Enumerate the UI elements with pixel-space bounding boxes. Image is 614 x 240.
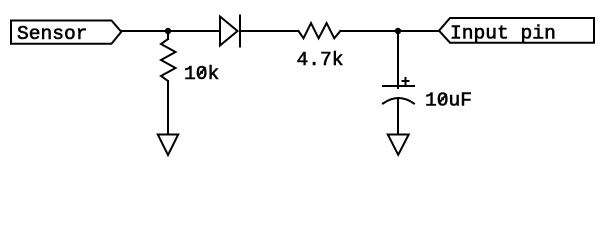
wire: junction down to C1 xyxy=(397,31,399,88)
wire: R1 bottom to ground xyxy=(167,81,169,135)
wire: R2 to Input pin flag xyxy=(340,30,439,32)
wire: C1 bottom to ground xyxy=(397,100,399,135)
diode D1 xyxy=(220,16,240,47)
svg-text:10k: 10k xyxy=(184,63,219,85)
resistor R2 4.7k (horizontal) xyxy=(299,23,341,38)
net flag Input pin xyxy=(439,18,594,43)
label 10uF xyxy=(425,90,472,112)
node junction at R1 top xyxy=(165,28,171,34)
resistor R1 10k (vertical) xyxy=(161,39,176,81)
wire: Sensor flag to diode anode xyxy=(121,30,220,32)
ground symbol (left) xyxy=(158,135,178,156)
node junction at C1 top xyxy=(395,28,401,34)
capacitor C1 10uF (polarized) xyxy=(383,86,414,104)
svg-text:Sensor: Sensor xyxy=(17,23,88,45)
wire: junction down to R1 xyxy=(167,31,169,39)
svg-text:10uF: 10uF xyxy=(425,90,472,112)
svg-text:Input pin: Input pin xyxy=(450,23,556,45)
plus polarity mark xyxy=(403,78,409,85)
label 10k xyxy=(184,63,219,85)
ground symbol (right) xyxy=(388,135,409,155)
svg-text:4.7k: 4.7k xyxy=(297,49,344,71)
wire: diode cathode to R2 xyxy=(240,30,299,32)
net flag Sensor xyxy=(11,21,121,44)
